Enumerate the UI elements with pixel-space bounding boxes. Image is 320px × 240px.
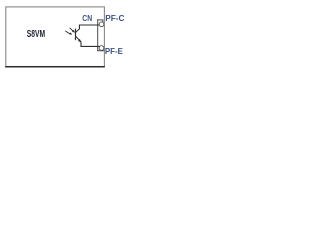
svg-text:PF-E: PF-E <box>105 46 123 56</box>
pin circle bottom (PF-E) <box>99 46 104 51</box>
box bottom edge (darker) <box>5 66 105 68</box>
phototransistor base bar <box>75 29 77 41</box>
svg-text:S8VM: S8VM <box>27 29 45 40</box>
connector pin stub top <box>102 20 104 22</box>
wire emitter lead <box>81 42 100 47</box>
power supply box S8VM <box>6 7 105 67</box>
connector pin stub bottom <box>102 49 104 52</box>
emitter arrowhead <box>78 39 81 42</box>
wire collector lead <box>79 25 99 29</box>
light arrow 1 <box>70 28 74 32</box>
phototransistor collector diagonal <box>76 29 80 32</box>
light arrow 2 <box>65 31 69 34</box>
svg-text:CN: CN <box>82 13 92 23</box>
light arrow 2 head <box>69 32 72 35</box>
phototransistor emitter diagonal <box>76 36 81 41</box>
pin circle top (PF-C) <box>99 22 104 27</box>
connector CN bracket <box>97 20 104 51</box>
svg-text:PF-C: PF-C <box>105 13 125 23</box>
light arrow 1 head <box>72 30 75 33</box>
